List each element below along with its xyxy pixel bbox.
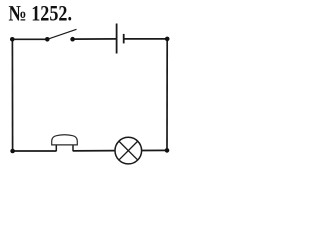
wire: bottom-right horizontal (lamp to corner) — [142, 149, 167, 151]
node: bottom-right corner junction — [165, 148, 170, 153]
wire: bottom-middle horizontal (button to lamp) — [73, 150, 115, 152]
wire: left vertical — [11, 39, 13, 151]
wire: top-left horizontal (corner to switch) — [12, 38, 47, 40]
node: top-left corner junction — [10, 37, 15, 42]
svg-text:№ 1252.: № 1252. — [9, 1, 73, 26]
wire: right vertical — [166, 39, 168, 150]
button cap — [52, 135, 78, 145]
right leg — [72, 145, 74, 152]
switch S (open knife switch) — [45, 29, 77, 41]
node: bottom-left corner junction — [10, 149, 15, 154]
long plate — [116, 24, 118, 54]
battery GB (single cell) — [117, 24, 124, 54]
push button SB (bell push) — [52, 135, 78, 152]
wire: bottom-left horizontal (corner to button) — [13, 150, 57, 152]
lamp EL (circle with cross) — [115, 137, 142, 164]
wire: top-right horizontal (battery to corner) — [124, 38, 168, 40]
wire: top-middle horizontal (switch to battery) — [73, 38, 117, 40]
node: top-right corner junction — [165, 37, 170, 42]
short plate — [123, 34, 125, 44]
left leg — [55, 145, 57, 152]
